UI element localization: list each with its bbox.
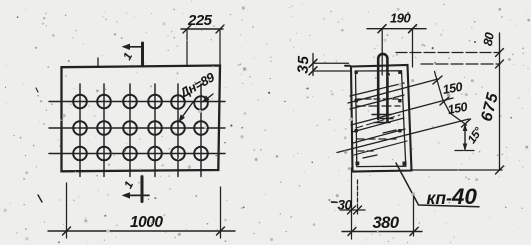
section outer outline — [351, 65, 412, 172]
lifting loop — [378, 54, 387, 121]
dimension 80 upper reference line — [396, 52, 500, 54]
35 tick bottom — [309, 67, 317, 75]
dimension 30 extension right — [357, 180, 359, 214]
hole column axis line 6 — [200, 84, 202, 177]
35 reference line upper — [313, 62, 349, 64]
380 tick right — [410, 228, 418, 236]
section cut line 1-1 bottom — [141, 177, 144, 202]
675 bottom reference line — [410, 169, 502, 171]
lifting loop hooks — [372, 114, 391, 116]
stray tick on top edge — [97, 58, 99, 67]
35 reference line lower — [313, 70, 351, 72]
svg-text:1000: 1000 — [130, 214, 163, 231]
diagonal bar short c — [352, 118, 404, 132]
dimension 1000 tick right — [217, 227, 225, 235]
dimension 380 extension right — [413, 196, 415, 236]
150 tick 2 — [440, 97, 449, 105]
diagonal bar B3 — [337, 119, 469, 153]
30 tick right — [354, 206, 362, 214]
dimension 225 line — [181, 28, 223, 30]
dimension 190 extension right — [412, 29, 414, 67]
dimension 30 extension left — [351, 168, 353, 239]
short bottom reference line of 15 arrow — [455, 150, 474, 152]
hole circles row 1 — [73, 95, 208, 110]
dimension 225 extension left — [186, 29, 188, 66]
extra diagonal bar e — [354, 141, 407, 155]
dimension 225 tick right — [216, 25, 224, 33]
rebar dots — [355, 71, 407, 166]
svg-text:35: 35 — [295, 55, 313, 74]
dimension 225 tick left — [183, 25, 191, 33]
dimension 1000 extension left — [66, 183, 68, 238]
dimension 1000 tick left — [63, 227, 71, 235]
dash before 30 — [332, 201, 338, 203]
hole circles row 2 — [73, 121, 208, 135]
dimension 1000 line — [48, 230, 235, 232]
380 tick left — [348, 228, 356, 236]
svg-text:225: 225 — [187, 12, 213, 29]
svg-text:30: 30 — [338, 198, 353, 213]
vertical double arrow 15 — [464, 125, 466, 150]
section cut arrow top — [126, 46, 142, 48]
dimension 380 line — [342, 231, 422, 233]
30 tick left — [348, 206, 356, 214]
diagonal bar short a — [350, 83, 404, 96]
diagonal bar short b — [350, 95, 404, 109]
loop centre line — [381, 29, 383, 75]
hole circles row 3 — [73, 147, 208, 161]
stray pen mark lower left — [38, 195, 42, 202]
150 tick 1 — [433, 76, 442, 84]
dimension 80 lower reference line — [421, 63, 500, 65]
hole column axis line 5 — [177, 84, 179, 177]
tick 675 bottom — [496, 166, 504, 174]
hole row axis line 1 — [49, 101, 225, 103]
dimension 225 extension right — [219, 29, 221, 66]
hole column axis line 1 — [79, 84, 81, 177]
dimension 1000 extension right — [220, 187, 222, 238]
section reinforcement cage (inner rectangle) — [356, 71, 406, 167]
dimension 35 vertical line — [312, 54, 314, 76]
interior dashed lines — [356, 98, 400, 100]
leader arrow to hole (upper) — [204, 94, 213, 101]
35 tick top — [309, 59, 317, 67]
tick 80 top — [496, 49, 504, 57]
kp-40 leader line — [396, 163, 479, 207]
hole column axis line 2 — [103, 84, 105, 177]
hole row axis line 3 — [49, 153, 225, 155]
svg-text:кп-40: кп-40 — [427, 184, 478, 209]
short interior dashes — [363, 155, 377, 158]
section cut line 1-1 top — [141, 43, 144, 66]
150 tick 3 — [462, 119, 471, 127]
leader arrow to hole (lower) — [180, 102, 193, 120]
dimension 30 line — [340, 209, 365, 211]
svg-text:380: 380 — [373, 214, 400, 232]
oblique dimension line for 150 spacing — [435, 72, 467, 126]
extra dashed diagonal bar f — [356, 115, 400, 128]
diagonal bar B1 — [348, 79, 438, 103]
hole column axis line 4 — [154, 84, 156, 177]
section cut arrow bottom — [126, 194, 149, 196]
tick 80 bottom — [496, 60, 504, 68]
dimension 190 tick left — [378, 25, 386, 33]
hole column axis line 3 — [129, 84, 131, 177]
hole row axis line 2 — [49, 127, 225, 129]
stray mark near top left — [36, 88, 38, 92]
right extension line (80/675) — [499, 33, 501, 170]
dimension 190 tick right — [409, 25, 417, 33]
diagonal bar short d — [353, 129, 405, 143]
diagonal bar B2 — [351, 98, 453, 125]
dimension 190 line — [367, 28, 426, 30]
panel outline — [62, 66, 221, 172]
